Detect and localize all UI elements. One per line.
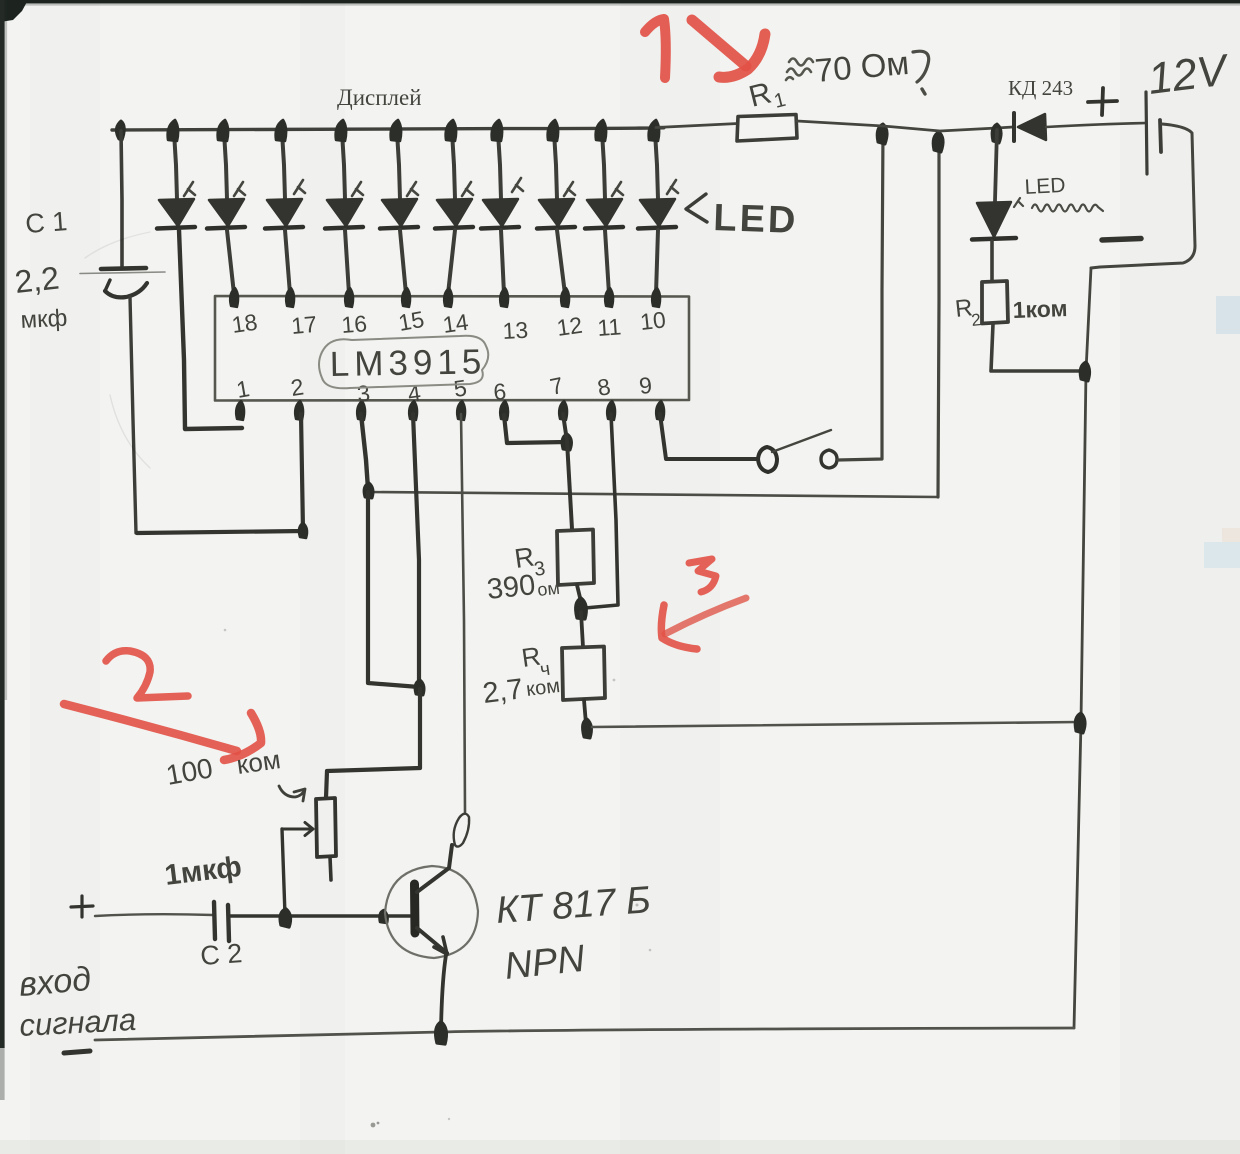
- LED D2: [207, 120, 245, 294]
- svg-text:14: 14: [441, 309, 470, 338]
- svg-text:LED: LED: [1024, 174, 1066, 199]
- node minus bus junction R2: [1080, 362, 1089, 381]
- wire pin 4 down: [413, 414, 419, 687]
- svg-text:15: 15: [396, 306, 426, 336]
- svg-text:17: 17: [290, 311, 318, 339]
- svg-text:390: 390: [485, 569, 536, 606]
- label +: [1088, 88, 1117, 115]
- wire switch to V+ rail: [838, 130, 883, 460]
- battery GB1 12V plate +: [1146, 92, 1147, 174]
- svg-text:16: 16: [341, 310, 368, 338]
- svg-text:12: 12: [555, 312, 584, 341]
- wire pin 2 to C1: [137, 414, 303, 533]
- node minus bus junction R4: [1075, 713, 1085, 733]
- svg-text:1ком: 1ком: [1012, 295, 1068, 323]
- LED D7: [481, 120, 523, 294]
- label - input: [64, 1051, 90, 1053]
- pin 3 node: [357, 401, 365, 420]
- svg-text:ом: ом: [536, 578, 560, 600]
- value approx squiggle: [786, 59, 813, 81]
- annotation arrow to LEDs: [686, 194, 707, 222]
- pin 16 node: [345, 288, 353, 307]
- annotation red arrow 2: [64, 704, 237, 751]
- svg-text:C 1: C 1: [24, 206, 68, 239]
- resistor R1: [737, 115, 797, 142]
- svg-text:С 2: С 2: [199, 938, 243, 971]
- pin 2 node: [295, 401, 303, 420]
- wire pin 7 to R3: [563, 414, 572, 529]
- wire top V+ rail: [112, 128, 664, 131]
- wire battery minus loop: [1091, 124, 1195, 268]
- node pin6/pin7 junction: [562, 434, 571, 450]
- label + input: [71, 896, 93, 917]
- diode VD1 КД243: [1014, 113, 1046, 141]
- wire pin 3 V+ net: [361, 414, 368, 489]
- annotation arrow у: [279, 786, 305, 801]
- LED D1: [157, 120, 195, 229]
- annotation red 3: [689, 559, 716, 592]
- pin 10 node: [652, 288, 660, 307]
- LED D8: [537, 120, 575, 294]
- annotation red arrow 3: [665, 598, 746, 634]
- svg-text:2,2: 2,2: [13, 260, 61, 300]
- wire rail to R1: [656, 124, 738, 128]
- svg-text:6: 6: [493, 378, 508, 405]
- svg-text:LED: LED: [713, 197, 799, 242]
- label -: [1102, 239, 1141, 241]
- svg-text:12V: 12V: [1145, 45, 1232, 104]
- pin 13 node: [500, 288, 508, 307]
- svg-text:мкф: мкф: [20, 305, 68, 334]
- node pin2/C1 junction: [299, 523, 307, 538]
- svg-text:2,7: 2,7: [481, 673, 525, 710]
- pin 15 node: [402, 288, 410, 307]
- wire input + to C2: [95, 914, 213, 916]
- wire pin 6 bracket: [504, 415, 566, 443]
- op-amp/IC U1 LM3915 box: [215, 296, 689, 401]
- pin 7 node: [559, 401, 567, 420]
- svg-text:NPN: NPN: [503, 938, 588, 988]
- node rail junction LED indicator: [992, 124, 1001, 143]
- pin 8 node: [607, 401, 615, 420]
- pin 5 node: [457, 401, 465, 420]
- pin 17 node: [286, 288, 294, 307]
- LED D6: [435, 120, 473, 294]
- wire bottom minus rail: [95, 1028, 1074, 1040]
- svg-text:сигнала: сигнала: [19, 1002, 137, 1043]
- svg-text:2: 2: [970, 310, 981, 330]
- wire junction to R4: [581, 612, 583, 647]
- pin 4 node: [409, 401, 417, 420]
- svg-text:11: 11: [597, 313, 623, 341]
- svg-text:Дисплей: Дисплей: [337, 85, 422, 110]
- pin 12 node: [561, 288, 569, 307]
- node top rail left end: [116, 121, 124, 140]
- switch SA1: [758, 430, 837, 472]
- label LM3915: [319, 336, 488, 389]
- node base wire junction small: [380, 910, 388, 923]
- wire LED D1 cathode to pin 1: [179, 230, 242, 429]
- svg-text:3: 3: [356, 380, 371, 407]
- annotation question curve: [913, 51, 929, 82]
- wire diode to battery: [1046, 123, 1146, 127]
- pin 11 node: [605, 288, 613, 307]
- resistor R4: [562, 647, 605, 701]
- annotation red 2: [106, 651, 188, 698]
- LED D5: [380, 120, 418, 294]
- wire R1 to diode: [797, 121, 1013, 131]
- capacitor C2: [214, 902, 229, 941]
- node R3/R4/pin8 junction: [576, 598, 587, 619]
- svg-text:КД 243: КД 243: [1008, 76, 1073, 100]
- transistor VT1 КТ817: [385, 814, 478, 1029]
- LED D10: [638, 120, 678, 294]
- svg-text:13: 13: [502, 317, 529, 344]
- svg-text:LM3915: LM3915: [329, 342, 486, 384]
- annotation red arrow 1: [692, 20, 746, 66]
- pin 6 node: [500, 401, 508, 420]
- resistor R2: [982, 281, 1008, 324]
- LED HL1 indicator: [972, 130, 1016, 281]
- svg-text:18: 18: [230, 309, 259, 338]
- svg-text:ком: ком: [235, 744, 283, 780]
- svg-text:ком: ком: [525, 675, 561, 701]
- node pin4 junction: [415, 680, 424, 695]
- node V+ rail drop junction: [933, 132, 943, 152]
- svg-text:10: 10: [639, 306, 667, 335]
- wire R4 to minus bus: [592, 722, 1079, 727]
- wire pin 8 to R3 bottom: [585, 414, 618, 608]
- annotation red 1: [645, 19, 666, 78]
- node rail junction x882: [877, 124, 887, 144]
- svg-text:вход: вход: [17, 960, 92, 1004]
- wire pin 9 to switch: [660, 414, 757, 459]
- LED D4: [325, 120, 363, 294]
- pin 1 node: [236, 401, 244, 420]
- wire R4 bottom: [584, 700, 586, 724]
- pin 14 node: [444, 288, 452, 307]
- pin 9 node: [656, 401, 664, 420]
- LED D9: [585, 120, 623, 294]
- node pin3 junction: [364, 483, 373, 498]
- wire R3 bottom junction: [577, 585, 582, 606]
- node R4 bottom hook: [583, 719, 592, 738]
- label LED индикатор: [1014, 174, 1103, 212]
- wire minus bus right vertical: [1074, 268, 1091, 1028]
- wire pin3 branch down to junction with pin 4: [368, 492, 419, 687]
- wire junction to potentiometer top: [326, 689, 420, 798]
- node base wire junction pot: [280, 909, 290, 927]
- LED D3: [265, 120, 305, 294]
- pin 18 node: [230, 288, 238, 307]
- battery plate -: [1160, 120, 1161, 152]
- resistor R3: [557, 530, 594, 586]
- svg-text:9: 9: [638, 372, 653, 399]
- capacitor C1: [80, 131, 165, 533]
- potentiometer R5 100к: [282, 798, 336, 915]
- node emitter junction: [436, 1022, 447, 1044]
- wire R2 to minus bus: [991, 324, 1084, 371]
- wire C2 to base: [229, 914, 410, 918]
- wire pin 5 down to transistor collector: [461, 414, 465, 812]
